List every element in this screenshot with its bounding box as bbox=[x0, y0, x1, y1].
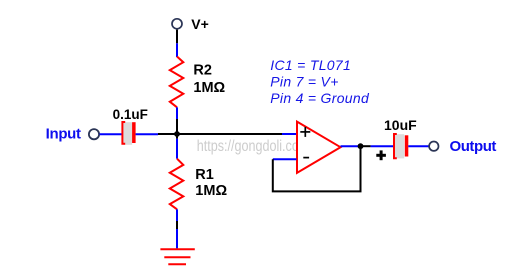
svg-text:0.1uF: 0.1uF bbox=[113, 107, 148, 122]
svg-text:R1: R1 bbox=[195, 167, 214, 183]
wire bbox=[273, 158, 297, 160]
ground bbox=[160, 249, 194, 264]
terminal Input bbox=[89, 129, 99, 139]
wire bbox=[176, 221, 178, 229]
svg-text:Pin 7 = V+: Pin 7 = V+ bbox=[270, 73, 338, 89]
wire bbox=[341, 145, 361, 147]
svg-text:1MΩ: 1MΩ bbox=[193, 80, 225, 96]
svg-text:V+: V+ bbox=[191, 16, 209, 32]
wire bbox=[158, 133, 282, 135]
wire bbox=[371, 145, 394, 147]
terminal V+ bbox=[172, 19, 182, 29]
node input junction bbox=[174, 131, 180, 137]
svg-text:10uF: 10uF bbox=[384, 117, 417, 133]
polarity + (C 10uF) bbox=[376, 150, 386, 160]
resistor R2 bbox=[170, 57, 184, 108]
svg-text:Input: Input bbox=[46, 126, 81, 143]
wire bbox=[176, 107, 178, 119]
op-amp U1 bbox=[297, 122, 341, 173]
svg-text:R2: R2 bbox=[193, 63, 212, 79]
wire bbox=[408, 145, 429, 147]
capacitor 10uF bbox=[394, 134, 408, 158]
wire bbox=[176, 119, 178, 139]
svg-text:Pin 4 = Ground: Pin 4 = Ground bbox=[270, 90, 370, 106]
svg-text:1MΩ: 1MΩ bbox=[195, 183, 227, 199]
wire bbox=[176, 139, 178, 159]
svg-text:Output: Output bbox=[450, 138, 497, 155]
wire bbox=[136, 133, 158, 135]
wire bbox=[273, 146, 361, 191]
terminal Output bbox=[429, 142, 438, 151]
wire bbox=[176, 30, 178, 44]
node output junction bbox=[358, 143, 364, 149]
resistor R1 bbox=[170, 159, 184, 210]
svg-text:https://gongdoli.com: https://gongdoli.com bbox=[197, 138, 309, 155]
svg-text:IC1 = TL071: IC1 = TL071 bbox=[270, 57, 351, 73]
capacitor 0.1uF bbox=[122, 122, 135, 145]
wire bbox=[361, 145, 371, 147]
wire bbox=[176, 209, 178, 248]
wire bbox=[282, 133, 297, 135]
wire bbox=[100, 133, 122, 135]
wire bbox=[176, 43, 178, 57]
